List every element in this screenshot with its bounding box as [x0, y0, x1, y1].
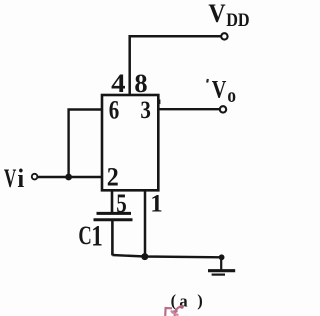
capacitor C1 plate top	[97, 212, 132, 215]
svg-text:DD: DD	[226, 10, 249, 31]
svg-text:V: V	[4, 164, 17, 193]
svg-text:1: 1	[150, 191, 163, 218]
terminal Vi	[32, 174, 38, 180]
junction Vi node	[65, 174, 72, 181]
svg-text:4: 4	[111, 69, 125, 98]
wire VDD supply from pins 4/8	[130, 36, 221, 95]
svg-text:): )	[197, 291, 203, 310]
svg-text:1: 1	[91, 219, 103, 252]
capacitor C1 plate bottom	[94, 218, 133, 221]
svg-text:V: V	[212, 77, 227, 104]
red handwriting blob	[180, 305, 184, 309]
ground terminal dot	[219, 254, 225, 260]
ground bar 1	[208, 269, 235, 272]
svg-text:6: 6	[109, 96, 120, 125]
svg-text:i: i	[17, 164, 24, 193]
wire output from pin 3	[158, 108, 220, 110]
wire bottom ground rail	[112, 255, 221, 257]
IC U1 body	[102, 95, 158, 190]
ground stem	[220, 257, 222, 269]
wire input Vi to pin 2	[38, 176, 102, 178]
svg-text:C: C	[78, 221, 91, 250]
tick before Vo	[206, 79, 209, 83]
red handwriting smudge	[171, 311, 179, 316]
wire pin 5 to C1	[111, 190, 114, 214]
svg-text:(: (	[171, 291, 177, 310]
wire C1 to ground rail	[111, 220, 114, 256]
junction pin 1 node	[141, 253, 148, 260]
svg-text:3: 3	[140, 97, 151, 124]
box right edge bump	[159, 100, 161, 105]
ground bar 2	[212, 274, 225, 276]
red handwriting mark 6	[172, 307, 181, 316]
svg-text:V: V	[208, 0, 225, 28]
wire pin 6 feedback loop	[69, 110, 102, 178]
red handwriting mark 5	[165, 308, 172, 316]
terminal Vo	[220, 106, 226, 112]
svg-text:8: 8	[134, 69, 147, 98]
svg-text:o: o	[227, 85, 236, 107]
terminal VDD	[221, 33, 227, 39]
svg-text:2: 2	[107, 163, 119, 192]
wire pin 1 down	[144, 190, 147, 257]
